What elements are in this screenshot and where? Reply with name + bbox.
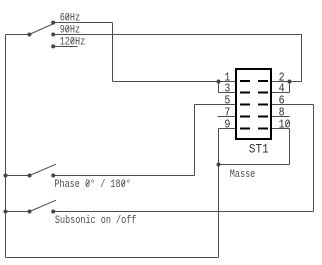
wire: 90Hz net into pin 2 [271,81,302,83]
pin bar row 4 left (pin 7) [240,116,250,118]
wire: pin 8 stub [271,116,290,118]
wire: Masse vertical riser to pin 9 [218,129,220,258]
wire: pin1 to pin3 tie [218,82,220,93]
pin bar row 4 right (pin 8) [258,116,268,118]
node: subsonic pole junction on bus [4,210,8,214]
pin bar row 2 left (pin 3) [240,92,250,94]
wire: pin 5 line left [195,104,237,106]
svg-text:9: 9 [224,119,230,132]
wire: ground bus left vertical [5,35,7,258]
wire: pin 6 vertical to subsonic switch [313,105,315,212]
wire: pin2 to pin4 tie [289,82,291,93]
svg-text:Subsonic on /off: Subsonic on /off [55,214,137,226]
node: pin 1 junction [217,80,221,84]
wire: 60Hz net horizontal top [53,22,113,24]
node: phase pole junction on bus [4,174,8,178]
pin bar row 1 right (pin 2) [258,80,268,82]
slashed zero of Phase 180 [122,180,125,186]
switch S-phase lever [30,164,57,175]
wire: pin 7 stub [218,116,237,118]
wire: Masse horizontal tie [219,164,290,166]
wire: phase net horizontal [53,175,195,177]
wire: pin 10 vertical drop [289,129,291,165]
svg-text:90Hz: 90Hz [60,24,80,36]
wire: 90Hz net horizontal top [53,34,302,36]
wire: ground bus bottom rail [6,257,219,259]
svg-text:60Hz: 60Hz [60,12,80,24]
wire: pin 9 stub [219,128,237,130]
wire: rotary switch pole feed [6,34,30,36]
wire: pin 6 line right [271,104,314,106]
slashed zero of 120Hz [71,38,74,44]
node: subsonic contact [51,210,55,214]
pin bar row 5 left (pin 9) [240,128,250,130]
slashed zero of Phase 0 [86,180,89,186]
slashed zero of 60Hz [66,14,69,20]
wire: pin 10 stub [271,128,290,130]
svg-text:120Hz: 120Hz [60,35,86,47]
pin bar row 3 left (pin 5) [240,104,250,106]
node: pin 2 junction [288,80,292,84]
wire: pin 5 vertical to phase switch [194,105,196,176]
node: 60Hz contact [51,21,55,25]
pin bar row 5 right (pin 10) [258,128,268,130]
node: 120Hz contact [51,44,55,48]
node: subsonic pole [28,210,32,214]
wire: 60Hz net vertical drop [112,23,114,82]
switch S-rotary lever (60/90/120Hz selector) [29,23,55,35]
wire: subsonic net horizontal [53,211,314,213]
svg-text:Phase 0° / 180°: Phase 0° / 180° [54,178,130,190]
node: rotary pole junction [27,33,31,37]
pin bar row 1 left (pin 1) [240,80,250,82]
wire: phase switch pole feed [6,175,30,177]
wire: subsonic switch pole feed [6,211,30,213]
svg-text:Masse: Masse [230,168,256,180]
node: Masse junction [217,163,221,167]
slashed zero of 90Hz [66,26,69,32]
slashed zero of pin 10 [285,120,289,127]
wire: 120Hz stub [53,46,78,48]
pin bar row 3 right (pin 6) [258,104,268,106]
svg-text:ST1: ST1 [249,142,269,157]
wire: pin 4 stub [271,92,290,94]
node: 90Hz contact [51,33,55,37]
wire: pin 3 stub [219,92,237,94]
wire: 90Hz net vertical drop right [301,35,303,82]
pin bar row 2 right (pin 4) [258,92,268,94]
node: phase pole [28,174,32,178]
node: phase contact [51,174,55,178]
connector ST1 body [236,69,271,139]
switch S-subsonic lever [30,200,57,211]
wire: 60Hz net to pin 1 [113,81,237,83]
